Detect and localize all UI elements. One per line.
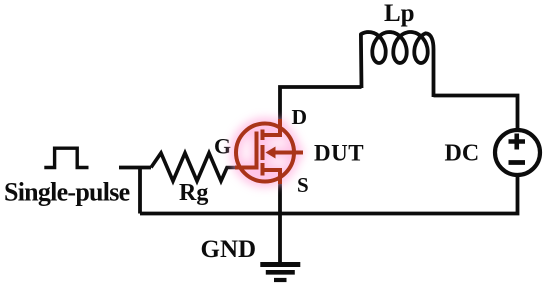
svg-text:Rg: Rg [179,180,208,206]
DC plus sign [509,134,526,150]
svg-text:DUT: DUT [314,140,364,165]
DC minus sign [509,160,526,165]
MOSFET glow halo [236,119,303,184]
gate lead [235,166,259,170]
svg-text:G: G [214,133,231,158]
svg-text:Lp: Lp [384,0,415,27]
inductor Lp [361,32,434,97]
wire drain vertical and top-left rail [280,87,362,121]
svg-text:D: D [292,105,308,129]
DC source circle [495,130,540,175]
transistor DUT (MOSFET symbol, red) [235,119,303,184]
wire source vertical [278,182,282,214]
source stub [263,170,281,184]
svg-text:DC: DC [445,140,480,166]
wire bottom rail [140,175,518,214]
pulse source symbol [44,148,88,167]
body lead [272,151,303,155]
channel bottom dash [261,163,265,176]
wire top-right rail [434,96,518,132]
body arrow head [266,147,276,159]
channel top dash [261,130,265,141]
wire GND stem [278,214,282,264]
svg-text:S: S [297,173,309,197]
drain stub [263,119,281,135]
channel mid dash [261,145,265,160]
svg-text:GND: GND [201,236,257,263]
wire junction vertical left [138,168,142,214]
mosfet body circle [236,124,294,182]
resistor Rg [151,153,237,181]
ground [260,265,300,281]
gate bar [255,132,259,170]
wire pulse to resistor [119,166,151,170]
svg-text:Single-pulse: Single-pulse [4,178,130,207]
